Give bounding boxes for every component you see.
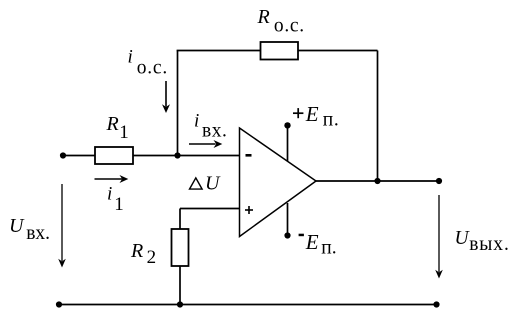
- node summing junction A: [174, 152, 180, 158]
- wire noninverting input horizontal: [180, 208, 240, 210]
- resistor R2: [172, 229, 189, 266]
- svg-text:R: R: [130, 240, 143, 262]
- svg-text:E: E: [305, 230, 319, 254]
- label - E п.: [299, 230, 337, 259]
- svg-text:i: i: [107, 183, 112, 204]
- wire input left segment: [63, 155, 95, 157]
- wire feedback vertical right: [377, 51, 379, 182]
- svg-text:R: R: [257, 6, 270, 28]
- wire feedback top right: [298, 50, 378, 52]
- wire negative supply: [287, 203, 289, 236]
- label i вх.: [194, 111, 227, 142]
- svg-text:U: U: [205, 172, 221, 194]
- wire R2 bottom vertical: [179, 266, 181, 305]
- node R2 ground junction: [177, 301, 183, 307]
- wire R1 to op-amp inverting input: [133, 155, 240, 157]
- wire output: [316, 180, 439, 182]
- svg-text:E: E: [305, 102, 319, 126]
- svg-text:2: 2: [147, 247, 157, 268]
- label U вх.: [9, 215, 50, 244]
- wire R2 top vertical: [179, 209, 181, 230]
- voltage arrow U вых.: [435, 195, 443, 279]
- svg-text:п.: п.: [321, 238, 336, 259]
- op-amp U1: [240, 128, 317, 237]
- svg-text:U: U: [9, 215, 25, 237]
- label i1: [107, 183, 124, 215]
- op-amp inverting input marker -: [246, 154, 252, 157]
- svg-text:о.с.: о.с.: [137, 57, 168, 78]
- voltage arrow U вх.: [58, 184, 66, 268]
- current arrow i о.с.: [162, 81, 170, 113]
- resistor Roc (R о.с.): [261, 42, 299, 60]
- wire positive supply: [287, 125, 289, 161]
- svg-text:1: 1: [114, 194, 124, 215]
- svg-text:i: i: [194, 111, 199, 132]
- svg-text:вх.: вх.: [202, 120, 227, 141]
- node feedback tap on output: [374, 178, 380, 184]
- svg-text:вых.: вых.: [469, 234, 510, 255]
- node positive supply terminal: [284, 122, 290, 128]
- current arrow i1: [95, 175, 129, 183]
- node output terminal: [436, 178, 442, 184]
- label R2: [130, 240, 156, 268]
- svg-text:1: 1: [119, 122, 129, 143]
- svg-text:вх.: вх.: [26, 223, 50, 244]
- wire feedback vertical left: [177, 51, 179, 156]
- svg-text:п.: п.: [323, 109, 340, 130]
- svg-text:i: i: [128, 47, 133, 68]
- node bottom left terminal: [56, 301, 62, 307]
- label ΔU: [190, 172, 222, 194]
- svg-text:о.с.: о.с.: [274, 15, 305, 36]
- label U вых.: [455, 228, 510, 255]
- node bottom right terminal: [433, 301, 439, 307]
- label R1: [106, 113, 129, 143]
- resistor R1: [95, 147, 133, 164]
- op-amp noninverting input marker +: [245, 206, 253, 214]
- node input terminal: [60, 152, 66, 158]
- label i о.с.: [128, 47, 169, 79]
- current arrow i вх.: [189, 140, 222, 148]
- label + E п.: [293, 102, 340, 130]
- svg-text:R: R: [106, 113, 119, 135]
- wire feedback top left: [177, 50, 261, 52]
- node negative supply terminal: [284, 232, 290, 238]
- svg-text:U: U: [455, 228, 471, 249]
- wire bottom rail: [59, 304, 437, 306]
- label R о.с.: [257, 6, 305, 36]
